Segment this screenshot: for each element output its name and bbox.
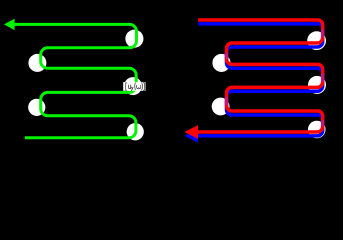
green beam serpentine (left figure) bbox=[12, 24, 137, 137]
mirror M2 (left figure, upper left fold) bbox=[28, 54, 46, 72]
mirror M5 (left figure, bottom right fold) bbox=[127, 123, 144, 140]
glyph ] bbox=[143, 83, 144, 90]
red arrowhead (right figure exit, pointing left) bbox=[184, 125, 198, 139]
green arrowhead (left figure exit, pointing left) bbox=[4, 19, 15, 30]
label text u_y(omega), drawn as vector strokes bbox=[126, 83, 145, 91]
mirror M9 (right figure, lower left fold) bbox=[212, 98, 230, 116]
blue beam serpentine (right figure) bbox=[184, 24, 322, 143]
merged red+blue descending segment, fold 2 bbox=[225, 53, 228, 59]
merged red+blue descending segment, fold 4 bbox=[225, 97, 228, 106]
glyph u bbox=[129, 85, 131, 89]
glyph y (subscript) bbox=[131, 87, 133, 90]
merged red+blue descending segment, fold 3 bbox=[321, 73, 324, 82]
blue arrowhead (right figure exit, pointing left) bbox=[184, 129, 198, 143]
glyph omega bbox=[137, 85, 141, 88]
merged red+blue descending segment, fold 5 bbox=[321, 120, 324, 126]
mirror M8 (right figure, middle right fold) bbox=[308, 76, 326, 94]
merged red+blue descending segment, fold 1 bbox=[321, 29, 324, 38]
mirror M1 (left figure, top right fold) bbox=[125, 30, 143, 48]
glyph [ bbox=[126, 83, 127, 90]
label box u_y(omega) on mirror M3 bbox=[123, 82, 145, 91]
mirror M7 (right figure, upper left fold) bbox=[212, 54, 230, 72]
mirror M3 (left figure, middle right fold, labelled) bbox=[124, 77, 142, 95]
red beam serpentine (right figure) bbox=[184, 20, 322, 139]
glyph ( bbox=[134, 83, 137, 90]
mirror M10 (right figure, bottom right fold) bbox=[308, 121, 326, 139]
glyph ) bbox=[141, 83, 144, 90]
mirror M4 (left figure, lower left fold) bbox=[28, 99, 45, 116]
mirror M6 (right figure, top right fold) bbox=[307, 31, 326, 50]
